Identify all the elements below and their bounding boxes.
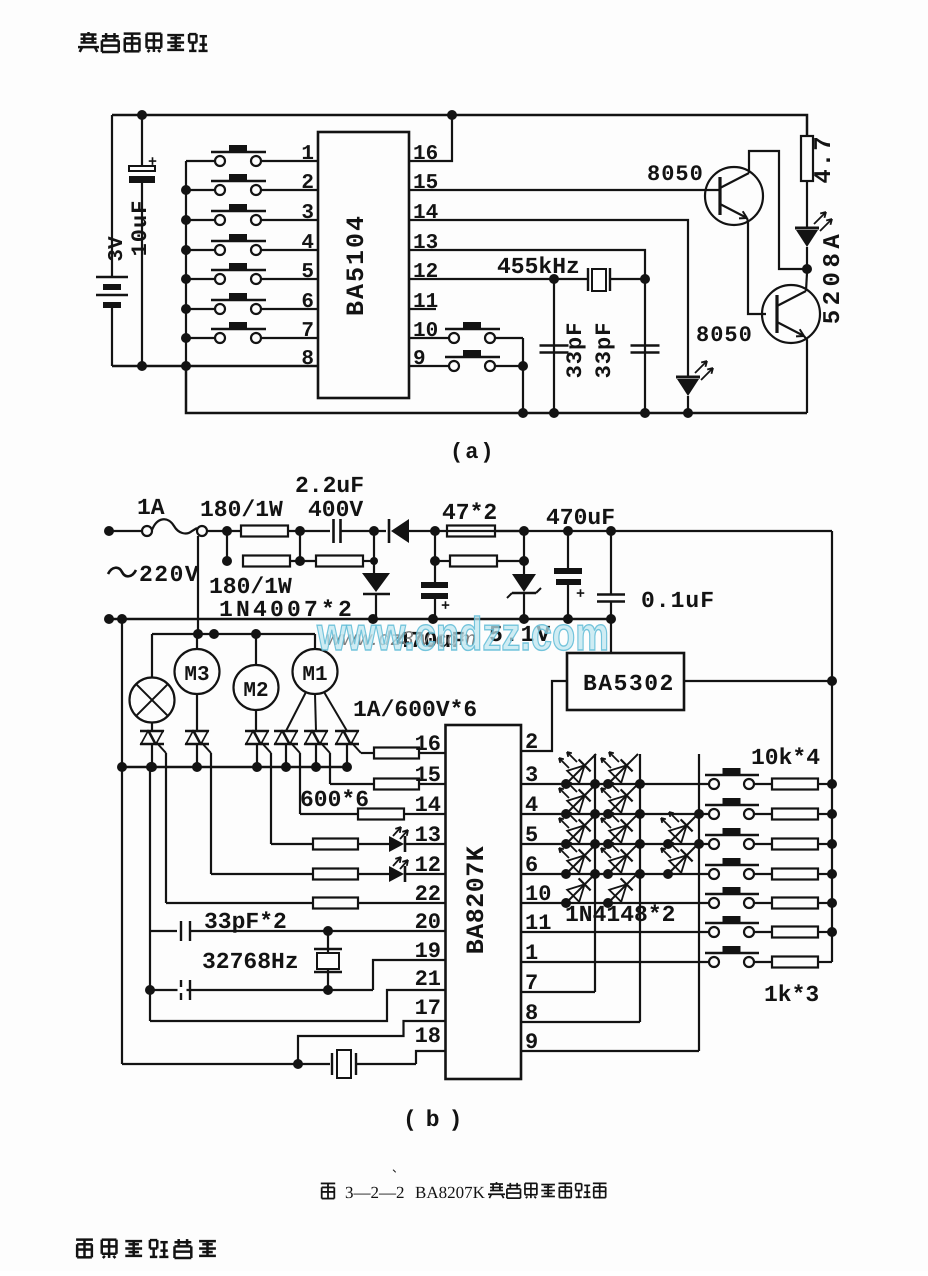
svg-text:33pF: 33pF: [592, 322, 617, 379]
svg-text:BA5302: BA5302: [583, 671, 675, 697]
svg-text:16: 16: [413, 143, 438, 166]
svg-text:7: 7: [301, 320, 314, 343]
svg-text:5: 5: [301, 261, 314, 284]
svg-text:4.7: 4.7: [811, 134, 838, 183]
svg-text:470uF: 470uF: [546, 505, 615, 531]
svg-text:18: 18: [415, 1024, 441, 1049]
svg-text:33pF: 33pF: [563, 322, 588, 379]
svg-text:1: 1: [301, 143, 314, 166]
svg-text:4: 4: [301, 232, 314, 255]
svg-text:33pF*2: 33pF*2: [204, 909, 287, 935]
svg-text:12: 12: [413, 261, 438, 284]
svg-text:BA8207K: BA8207K: [462, 846, 491, 955]
svg-text:400V: 400V: [308, 497, 363, 523]
svg-text:9: 9: [413, 348, 426, 371]
svg-text:2.2uF: 2.2uF: [295, 473, 364, 499]
svg-text:8: 8: [301, 348, 314, 371]
svg-text:455kHz: 455kHz: [497, 254, 580, 280]
svg-text:BA8207K: BA8207K: [415, 1183, 486, 1202]
svg-text:180/1W: 180/1W: [200, 497, 283, 523]
svg-text:3V: 3V: [106, 236, 129, 262]
svg-text:1A: 1A: [137, 495, 165, 521]
svg-text:M1: M1: [302, 664, 327, 687]
svg-text:600*6: 600*6: [300, 787, 369, 813]
svg-text:、: 、: [392, 1161, 404, 1175]
svg-text:17: 17: [415, 996, 441, 1021]
svg-text:0.1uF: 0.1uF: [641, 588, 715, 614]
svg-text:14: 14: [413, 202, 438, 225]
svg-text:1k*3: 1k*3: [764, 982, 819, 1008]
svg-text:(b): (b): [403, 1107, 471, 1133]
svg-text:1A/600V*6: 1A/600V*6: [353, 697, 477, 723]
svg-text:(a): (a): [450, 440, 496, 465]
svg-text:8050: 8050: [696, 323, 753, 348]
svg-text:6: 6: [301, 291, 314, 314]
svg-text:2: 2: [301, 172, 314, 195]
svg-text:13: 13: [413, 232, 438, 255]
svg-text:2: 2: [525, 730, 538, 755]
svg-text:47*2: 47*2: [442, 500, 497, 526]
svg-text:+: +: [576, 586, 585, 603]
svg-text:8050: 8050: [647, 162, 704, 187]
svg-text:www.cndzz.com: www.cndzz.com: [316, 607, 609, 660]
svg-text:M3: M3: [184, 664, 209, 687]
svg-text:M2: M2: [243, 680, 268, 703]
svg-text:10: 10: [413, 320, 438, 343]
svg-text:10k*4: 10k*4: [751, 745, 820, 771]
svg-text:1N4148*2: 1N4148*2: [565, 902, 675, 928]
svg-text:220V: 220V: [139, 562, 200, 588]
svg-text:21: 21: [415, 967, 441, 992]
svg-text:5208A: 5208A: [820, 230, 847, 325]
svg-text:3: 3: [301, 202, 314, 225]
svg-text:+: +: [148, 154, 157, 171]
svg-text:BA5104: BA5104: [342, 214, 371, 316]
svg-text:15: 15: [413, 172, 438, 195]
svg-text:3—2—2: 3—2—2: [345, 1183, 405, 1202]
svg-text:11: 11: [413, 291, 438, 314]
svg-text:10uF: 10uF: [128, 200, 153, 257]
svg-text:32768Hz: 32768Hz: [202, 949, 299, 975]
